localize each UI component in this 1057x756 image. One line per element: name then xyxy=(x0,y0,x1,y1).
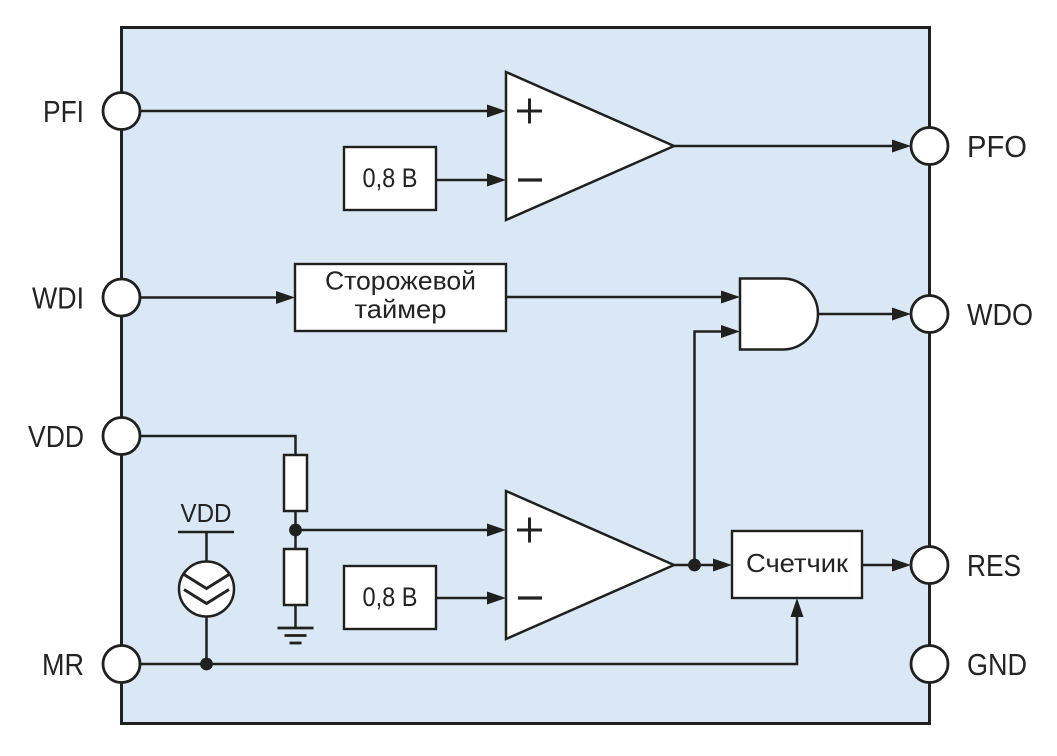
wire PFI to comparator + xyxy=(140,110,495,113)
svg-text:MR: MR xyxy=(42,647,84,682)
pin WDO xyxy=(911,296,948,333)
arrow into comparator + xyxy=(487,105,506,118)
wire watchdog timer to AND gate input 1 xyxy=(506,296,729,299)
svg-text:WDO: WDO xyxy=(967,297,1033,332)
wire R2 to ground xyxy=(294,605,297,628)
voltage reference box 0,8 В (top) xyxy=(344,147,436,210)
current source I1 xyxy=(179,562,234,617)
wire comparator2 out to counter xyxy=(674,564,720,567)
wire 0,8V ref2 to comparator2 - xyxy=(436,597,495,600)
svg-text:PFO: PFO xyxy=(967,129,1027,164)
VDD net label (internal) xyxy=(178,498,234,562)
svg-text:0,8 В: 0,8 В xyxy=(363,582,418,612)
op-amp comparator U2 (top) xyxy=(506,72,674,220)
watchdog timer box xyxy=(295,264,506,331)
node B comparator output junction xyxy=(688,559,701,572)
resistor R1 xyxy=(284,455,307,511)
pin VDD xyxy=(103,418,140,455)
arrow up into counter bottom xyxy=(791,598,804,617)
wire comparator out to PFO xyxy=(674,145,900,148)
svg-text:Сторожевой: Сторожевой xyxy=(325,266,476,296)
voltage reference box 0,8 В (bottom) xyxy=(344,566,436,629)
pin RES xyxy=(911,547,948,584)
wire counter to RES xyxy=(862,564,900,567)
svg-text:RES: RES xyxy=(967,548,1021,583)
svg-text:Счетчик: Счетчик xyxy=(746,548,849,578)
svg-text:PFI: PFI xyxy=(43,94,84,129)
resistor R2 xyxy=(284,549,307,605)
pin GND xyxy=(911,646,948,683)
wire node B up to AND gate input 2 xyxy=(695,332,730,566)
node A divider midpoint xyxy=(289,524,302,537)
svg-text:GND: GND xyxy=(967,647,1027,682)
svg-text:0,8 В: 0,8 В xyxy=(363,163,418,193)
wire MR line xyxy=(140,609,797,664)
pin MR xyxy=(103,646,140,683)
svg-text:таймер: таймер xyxy=(355,294,447,324)
svg-text:VDD: VDD xyxy=(28,419,84,454)
wire AND gate to WDO xyxy=(818,313,900,316)
svg-text:WDI: WDI xyxy=(32,281,84,316)
wire current source to MR line xyxy=(205,617,208,665)
pin PFO xyxy=(911,128,948,165)
counter box Счетчик xyxy=(732,531,862,598)
wire R1 to R2 xyxy=(294,511,297,549)
pin WDI xyxy=(103,279,140,316)
wire WDI to watchdog timer xyxy=(140,296,284,299)
op-amp comparator U4 (bottom) xyxy=(506,491,674,639)
junction dot on MR line xyxy=(200,658,213,671)
pin PFI xyxy=(103,93,140,130)
wire VDD to divider top xyxy=(140,436,296,456)
IC body U1 xyxy=(122,28,930,724)
wire 0,8V ref to comparator - xyxy=(436,179,495,182)
arrow into comparator - xyxy=(487,174,506,187)
AND gate U3 xyxy=(740,279,818,350)
ground xyxy=(278,628,314,643)
svg-text:VDD: VDD xyxy=(181,498,232,528)
wire node A to comparator2 + xyxy=(296,529,496,532)
